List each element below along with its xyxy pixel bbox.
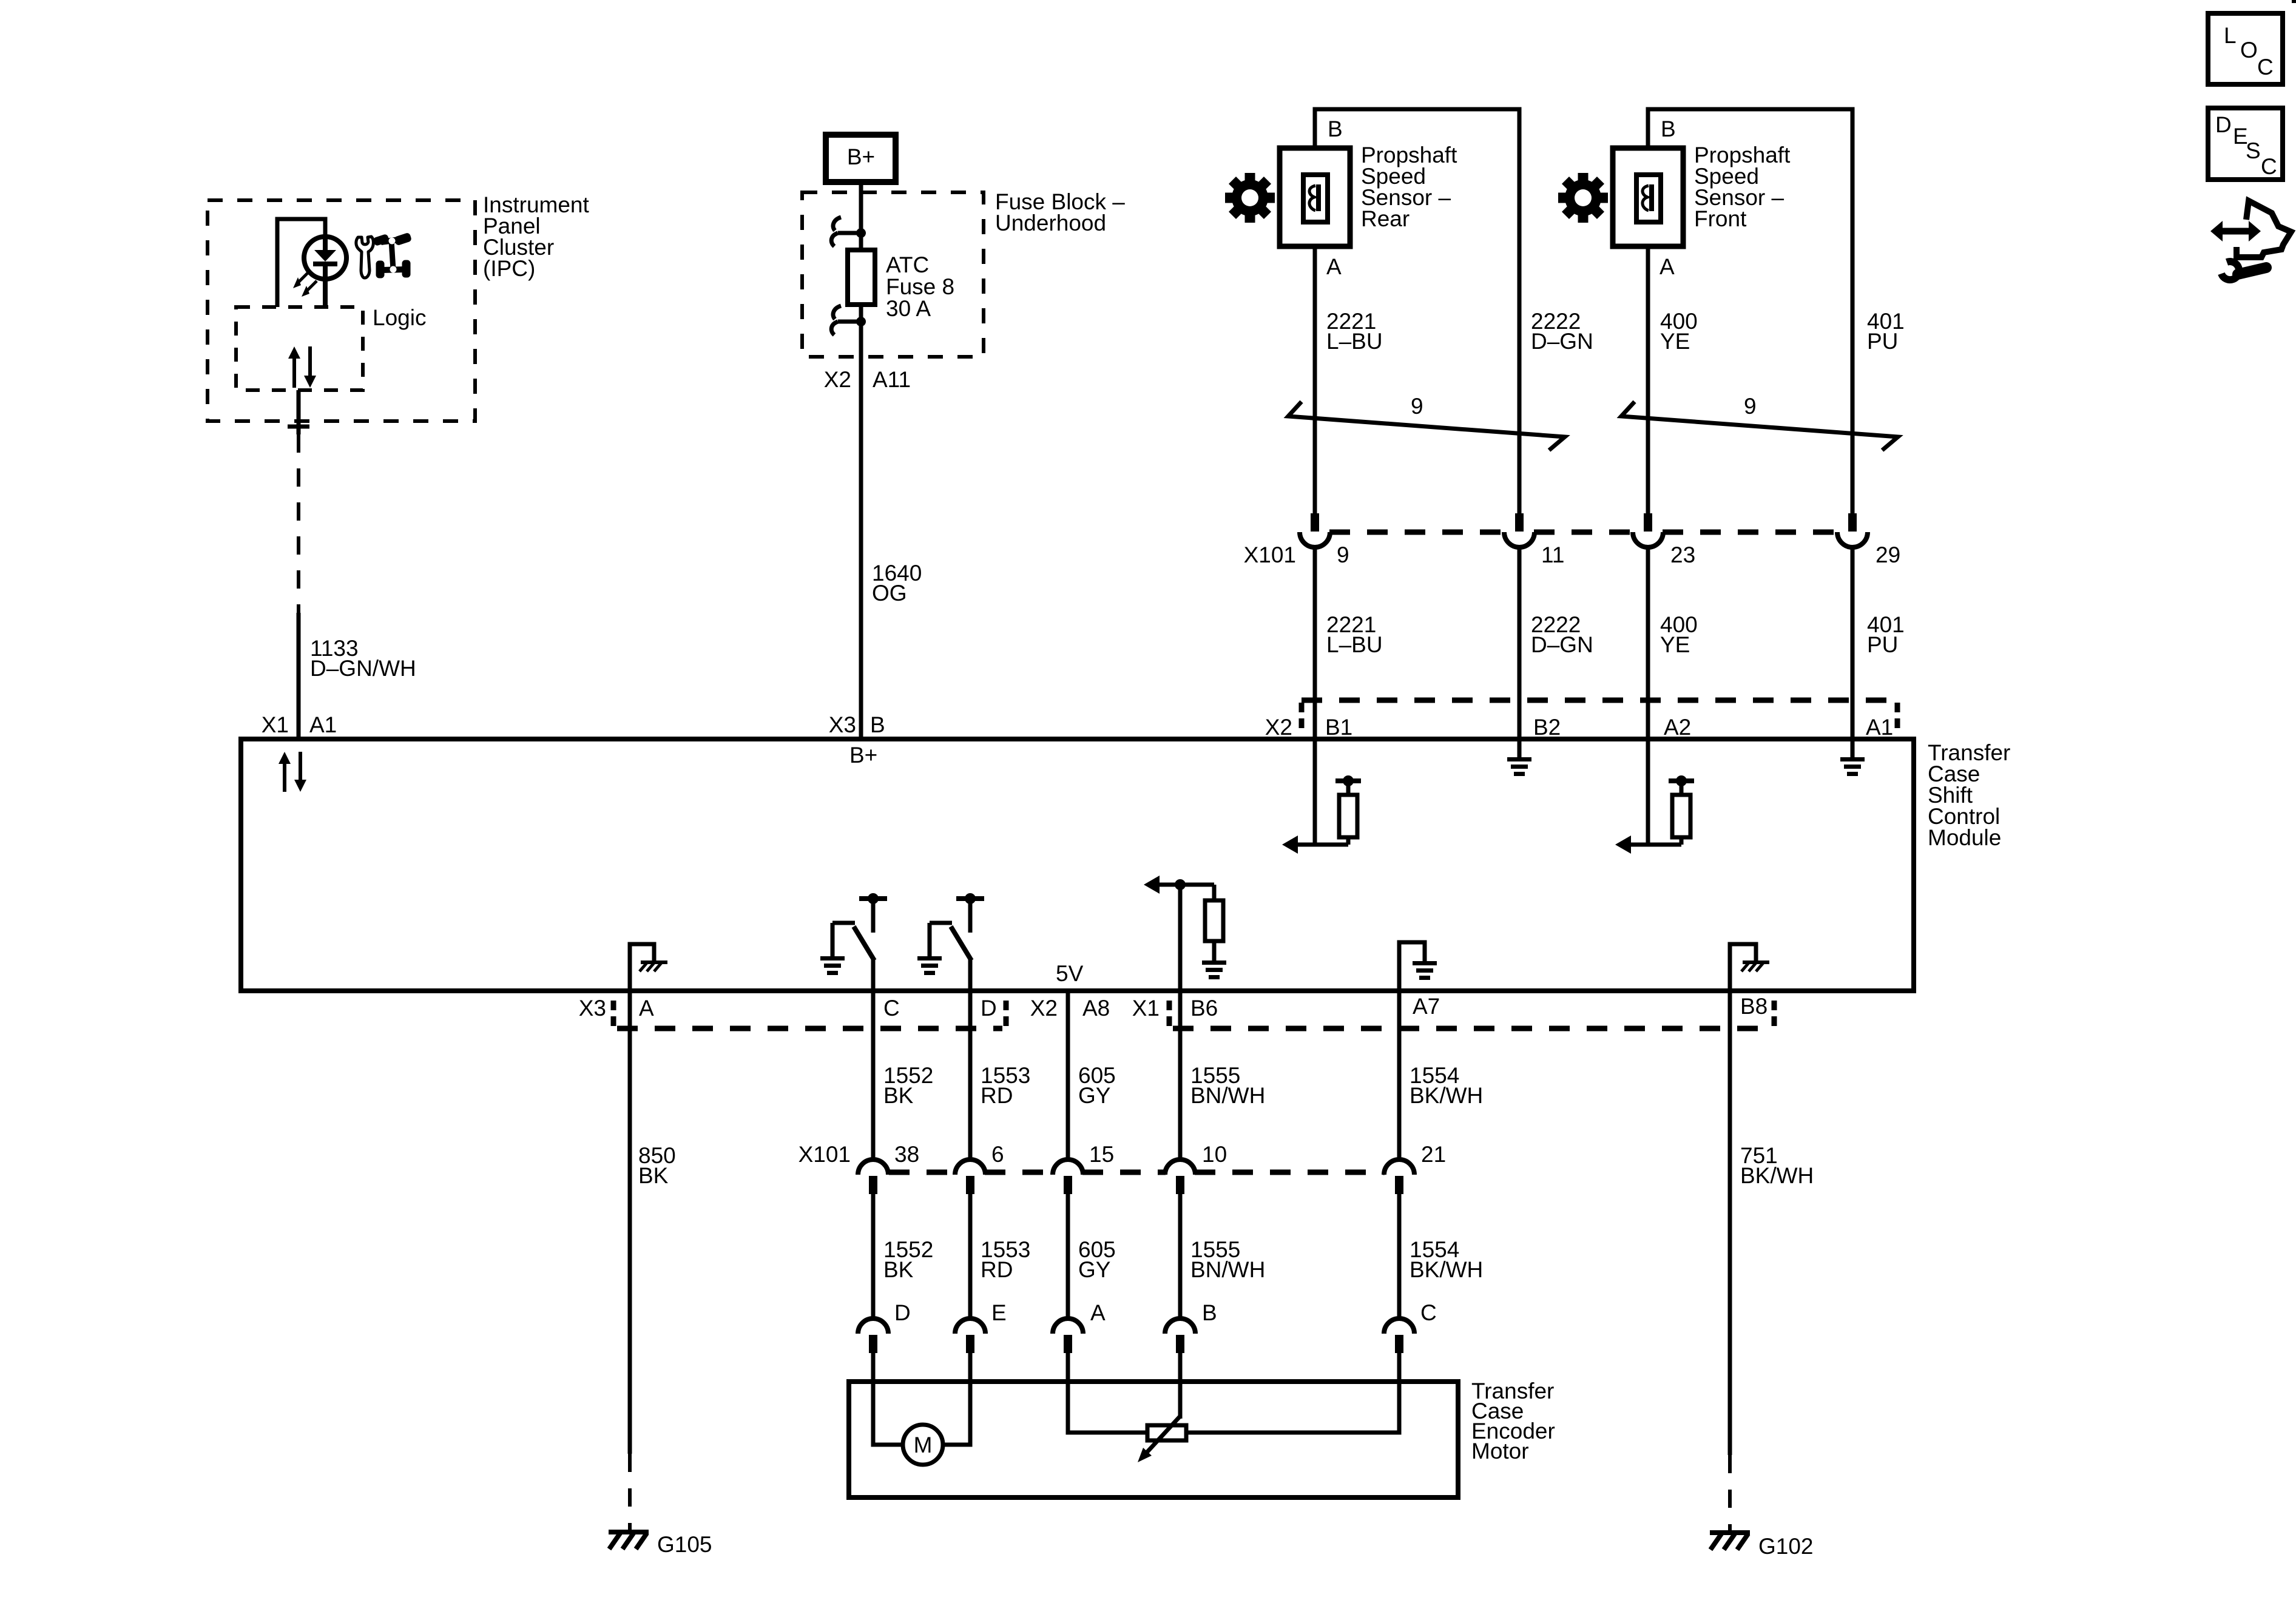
svg-text:X1: X1	[262, 712, 289, 737]
logic block dashed box	[236, 307, 363, 390]
svg-text:BK: BK	[883, 1083, 914, 1108]
svg-text:Motor: Motor	[1471, 1439, 1529, 1463]
connector X101 pin 38	[858, 1160, 888, 1175]
svg-text:Logic: Logic	[373, 305, 426, 330]
svg-text:29: 29	[1876, 542, 1900, 567]
svg-text:L–BU: L–BU	[1326, 632, 1383, 657]
svg-text:D: D	[894, 1300, 911, 1325]
fuse clip bottom	[859, 305, 863, 322]
svg-text:BK/WH: BK/WH	[1410, 1083, 1483, 1108]
connector X101 pin 21	[1384, 1160, 1414, 1175]
connector pin E encoder	[955, 1318, 985, 1334]
svg-text:23: 23	[1670, 542, 1695, 567]
svg-text:C: C	[2257, 55, 2274, 79]
svg-text:G102: G102	[1758, 1534, 1814, 1559]
svg-text:X3: X3	[579, 996, 606, 1021]
svg-text:A1: A1	[309, 712, 337, 737]
svg-text:5V: 5V	[1056, 961, 1084, 986]
wire 1640 OG	[859, 322, 863, 741]
svg-text:21: 21	[1421, 1142, 1446, 1167]
module connector X2 dashed line	[1302, 698, 1897, 703]
icon drivetrain (4WD)	[373, 232, 412, 278]
svg-text:B+: B+	[849, 743, 877, 768]
icon wrench bottom right	[2221, 262, 2239, 280]
svg-text:9: 9	[1411, 394, 1423, 419]
module bottom connector X1 dashed line	[1167, 1001, 1172, 1030]
svg-text:GY: GY	[1078, 1257, 1110, 1282]
svg-text:E: E	[991, 1300, 1007, 1325]
switch pin wire	[871, 959, 876, 991]
wire 1555 lower	[1178, 1194, 1183, 1318]
wire LED loop top	[277, 219, 325, 307]
svg-text:6: 6	[991, 1142, 1004, 1167]
wire 605 lower	[1066, 1194, 1070, 1318]
sensor rear inner element	[1303, 175, 1328, 222]
wire from B+ to fuse	[859, 182, 863, 233]
svg-text:X3: X3	[829, 712, 856, 737]
svg-text:ATC: ATC	[886, 252, 929, 277]
ground symbol under A1	[1851, 741, 1855, 757]
power feed B+ box	[826, 135, 896, 182]
wire A2 input	[1646, 741, 1650, 845]
svg-text:D–GN: D–GN	[1531, 329, 1593, 354]
svg-text:BK: BK	[638, 1163, 669, 1188]
LED diode	[323, 237, 328, 250]
connector pin B encoder	[1165, 1318, 1195, 1334]
component Propshaft Speed Sensor - Front box	[1613, 148, 1683, 246]
wire A to position sensor	[1068, 1382, 1147, 1433]
svg-text:C: C	[1420, 1300, 1437, 1325]
wire B1 input	[1313, 741, 1317, 845]
connector X101 pin 29	[1848, 513, 1857, 532]
svg-text:BN/WH: BN/WH	[1190, 1257, 1265, 1282]
wire 400 lower	[1646, 547, 1650, 700]
svg-text:A1: A1	[1866, 715, 1893, 740]
svg-text:X2: X2	[824, 367, 851, 392]
page corner mark	[2292, 0, 2296, 3]
wire 400 from sensor front pin A	[1646, 246, 1650, 513]
svg-text:30 A: 30 A	[886, 296, 931, 321]
svg-text:M: M	[914, 1433, 933, 1457]
svg-text:11: 11	[1541, 542, 1564, 567]
svg-text:10: 10	[1202, 1142, 1227, 1167]
svg-text:PU: PU	[1867, 632, 1898, 657]
svg-text:L: L	[2224, 23, 2237, 48]
svg-text:D: D	[981, 996, 997, 1021]
wire 1552 lower	[871, 1194, 876, 1318]
svg-text:B6: B6	[1190, 996, 1218, 1021]
svg-text:A8: A8	[1082, 996, 1110, 1021]
svg-text:X1: X1	[1132, 996, 1160, 1021]
ground G105	[609, 1530, 649, 1534]
pull-up resistor B6 to ground	[1212, 885, 1217, 900]
comparator arrow B1	[1295, 843, 1348, 847]
switch internal contact bar	[859, 896, 887, 901]
wire 1552 upper	[871, 991, 876, 1160]
inline connector X101 row2 dashed line	[889, 1170, 956, 1175]
sensor front inner element	[1636, 175, 1661, 222]
svg-text:X101: X101	[1244, 542, 1296, 567]
switch internal contact bar	[956, 896, 984, 901]
svg-text:A11: A11	[873, 367, 911, 392]
gear icon rear sensor	[1225, 173, 1275, 223]
svg-text:B: B	[1202, 1300, 1217, 1325]
wires into encoder box	[871, 1353, 876, 1384]
wire 1133 solid segment to module	[297, 613, 301, 741]
switch blade	[854, 927, 874, 960]
switch fixed contact to ground	[930, 921, 952, 925]
connector pin C encoder	[1384, 1318, 1414, 1334]
wire 1133 dashed segment	[297, 434, 300, 613]
motor M	[903, 1425, 943, 1465]
indicator LED circle	[304, 237, 346, 279]
icon data link arrow	[2220, 228, 2251, 235]
connector X101 pin 11	[1515, 513, 1524, 532]
connector X101 pin 15	[1053, 1160, 1083, 1175]
svg-text:C: C	[883, 996, 900, 1021]
svg-text:Underhood: Underhood	[995, 211, 1106, 235]
svg-text:PU: PU	[1867, 329, 1898, 354]
svg-text:B1: B1	[1325, 715, 1352, 740]
svg-text:O: O	[2240, 38, 2258, 62]
connector X101 pin 9	[1311, 513, 1319, 532]
wire 2221 lower	[1313, 547, 1317, 700]
svg-text:YE: YE	[1660, 329, 1690, 354]
LOC reference box	[2208, 13, 2283, 84]
svg-text:S: S	[2246, 138, 2261, 163]
svg-text:(IPC): (IPC)	[483, 256, 535, 281]
svg-text:G105: G105	[657, 1532, 712, 1557]
svg-text:Fuse 8: Fuse 8	[886, 274, 954, 299]
wires through X2 into module	[1313, 700, 1317, 741]
fuse clip top	[856, 228, 866, 238]
svg-text:A7: A7	[1413, 994, 1440, 1019]
ground symbol under B2	[1518, 741, 1522, 757]
twisted pair symbol front, 9 twists	[1621, 402, 1898, 450]
wire 605 upper	[1066, 991, 1070, 1160]
svg-text:Front: Front	[1694, 206, 1747, 231]
svg-text:B8: B8	[1740, 994, 1768, 1019]
twisted pair symbol rear, 9 twists	[1288, 402, 1565, 450]
inline connector X101 dashed line	[1329, 530, 1505, 535]
wire sensor rear loop	[1315, 109, 1519, 513]
svg-text:Rear: Rear	[1361, 206, 1410, 231]
internal ground hook at pin B8	[1730, 944, 1756, 991]
svg-text:D–GN/WH: D–GN/WH	[310, 656, 416, 681]
svg-text:38: 38	[894, 1142, 919, 1167]
svg-text:BK/WH: BK/WH	[1410, 1257, 1483, 1282]
wire 2222 lower	[1518, 547, 1522, 741]
wire D to motor	[873, 1382, 903, 1445]
fuse F8 element	[859, 233, 863, 250]
pull-up resistor B1	[1346, 837, 1351, 845]
internal ground hook at pin A7	[1399, 942, 1425, 991]
connector X101 pin 6	[955, 1160, 985, 1175]
svg-text:GY: GY	[1078, 1083, 1110, 1108]
wire sensor front loop	[1648, 109, 1852, 513]
svg-text:9: 9	[1744, 394, 1757, 419]
svg-text:X2: X2	[1265, 715, 1292, 740]
position sensor wiper arrow from B	[1145, 1416, 1180, 1454]
module up/down arrows	[283, 763, 286, 792]
component box Fuse Block - Underhood, dashed	[802, 192, 984, 357]
svg-text:B2: B2	[1533, 715, 1561, 740]
svg-text:RD: RD	[981, 1257, 1013, 1282]
switch blade	[951, 927, 971, 960]
LED emission arrows	[299, 272, 308, 282]
connector pin D encoder	[858, 1318, 888, 1334]
svg-text:YE: YE	[1660, 632, 1690, 657]
svg-text:X101: X101	[799, 1142, 851, 1167]
svg-text:B: B	[870, 712, 885, 737]
position sense network B6	[1178, 885, 1183, 991]
svg-text:A: A	[639, 996, 654, 1021]
icon harness outline	[2237, 201, 2291, 257]
wire E to motor	[943, 1382, 970, 1445]
svg-text:D–GN: D–GN	[1531, 632, 1593, 657]
DESC reference box	[2208, 108, 2283, 180]
wire 751 BK/WH	[1728, 991, 1732, 1455]
svg-text:RD: RD	[981, 1083, 1013, 1108]
svg-text:B+: B+	[847, 144, 875, 169]
svg-text:OG: OG	[872, 581, 907, 606]
module bottom connector X3 dashed line	[611, 1001, 616, 1030]
connector X101 pin 10	[1165, 1160, 1195, 1175]
svg-text:A: A	[1326, 254, 1342, 279]
wire 1554 upper	[1397, 991, 1402, 1160]
svg-text:C: C	[2261, 154, 2277, 179]
pull-up resistor A2	[1680, 837, 1684, 845]
logic up/down arrows	[292, 357, 296, 388]
ground G102	[1710, 1530, 1750, 1535]
component Propshaft Speed Sensor - Rear box	[1280, 148, 1350, 246]
svg-text:BN/WH: BN/WH	[1190, 1083, 1265, 1108]
wire 2221 from sensor rear pin A	[1313, 246, 1317, 513]
component box Transfer Case Encoder Motor	[849, 1382, 1458, 1497]
wire 1553 upper	[968, 991, 973, 1160]
svg-text:L–BU: L–BU	[1326, 329, 1383, 354]
wire 401 lower	[1851, 547, 1855, 741]
connector X101 pin 23	[1644, 513, 1652, 532]
wire 850 BK	[628, 991, 632, 1454]
svg-text:9: 9	[1337, 542, 1349, 567]
svg-text:BK/WH: BK/WH	[1740, 1163, 1814, 1188]
component box Instrument Panel Cluster (IPC), dashed	[208, 200, 475, 421]
connector pin A encoder	[1053, 1318, 1083, 1334]
svg-text:D: D	[2215, 112, 2232, 137]
wire 1553 lower	[968, 1194, 973, 1318]
IPC output pin	[297, 390, 301, 434]
svg-text:15: 15	[1089, 1142, 1114, 1167]
svg-text:B: B	[1661, 116, 1676, 141]
svg-text:A2: A2	[1664, 715, 1691, 740]
svg-text:A: A	[1660, 254, 1675, 279]
switch fixed contact to ground	[832, 921, 855, 925]
svg-text:X2: X2	[1030, 996, 1058, 1021]
wire 1554 lower	[1397, 1194, 1402, 1318]
wire C to position sensor	[1186, 1382, 1399, 1433]
icon wrench (service)	[356, 237, 374, 278]
svg-text:Module: Module	[1928, 825, 2001, 850]
wire 1555 upper	[1178, 991, 1183, 1160]
svg-text:BK: BK	[883, 1257, 914, 1282]
gear icon front sensor	[1558, 173, 1608, 223]
internal ground hook at pin A	[630, 944, 654, 991]
svg-text:A: A	[1090, 1300, 1106, 1325]
comparator arrow A2	[1629, 843, 1681, 847]
svg-text:B: B	[1328, 116, 1343, 141]
component box Transfer Case Shift Control Module	[241, 739, 1914, 991]
switch pin wire	[968, 959, 973, 991]
position sensor resistor	[1147, 1431, 1186, 1435]
